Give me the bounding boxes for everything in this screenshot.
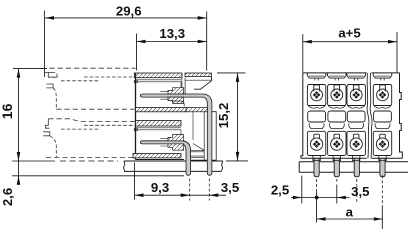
unit1 lower dashed line [56, 108, 134, 110]
PCB side view [124, 161, 223, 171]
top dashed line unit1 [50, 67, 136, 69]
columns [307, 73, 326, 160]
contact sleeve row1 [168, 88, 184, 94]
pins front view [314, 158, 385, 177]
second chamber top band [136, 121, 182, 127]
svg-text:3,5: 3,5 [221, 180, 239, 195]
PCB front [299, 162, 408, 173]
diagonal support [193, 144, 204, 151]
body left wall [135, 73, 137, 160]
svg-text:15,2: 15,2 [216, 103, 231, 129]
dim 9,3 / 3,5 bottom [135, 194, 227, 196]
bottom dashed line [46, 156, 136, 158]
row1 hook [44, 72, 135, 109]
row2 hook [43, 119, 135, 158]
svg-text:13,3: 13,3 [159, 26, 185, 41]
dim 15,2 [237, 73, 239, 161]
bottom wall hatched band [133, 153, 181, 158]
dim 2,5 / 3,5 [291, 197, 350, 199]
pin row2 (bends down near) [140, 141, 190, 176]
svg-text:a+5: a+5 [338, 26, 360, 41]
contact sleeve row2 [168, 135, 184, 141]
dim 16 + 2,6 vertical [18, 69, 20, 185]
dim 29,6 [45, 17, 207, 19]
dim a+5 [303, 41, 397, 43]
body top wall hatched band [134, 73, 182, 78]
chamber1 bottom step [172, 101, 185, 106]
svg-text:3,5: 3,5 [351, 184, 369, 199]
svg-text:16: 16 [0, 103, 15, 119]
middle wall hatched band [136, 107, 187, 111]
mid shelf to right [186, 107, 207, 111]
top dashed line unit2 [48, 119, 135, 122]
svg-text:2,5: 2,5 [271, 182, 289, 197]
body outline [301, 73, 303, 158]
pin row1 (bends down far) [140, 94, 212, 175]
dim a [317, 218, 383, 220]
svg-text:a: a [346, 205, 354, 220]
svg-text:9,3: 9,3 [151, 180, 169, 195]
upper shelf lines [136, 80, 181, 82]
right wall lower [212, 112, 216, 160]
break lines [367, 73, 369, 158]
svg-text:2,6: 2,6 [0, 188, 15, 206]
top-right corner flange [185, 79, 211, 81]
mating plug dashed outline [43, 68, 135, 157]
svg-text:29,6: 29,6 [116, 3, 142, 18]
dim 13,3 [137, 41, 207, 43]
